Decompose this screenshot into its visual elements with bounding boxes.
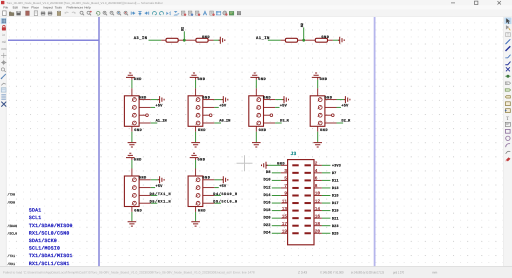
pin 1 of J9 xyxy=(196,178,200,182)
svg-text:GND: GND xyxy=(320,77,328,82)
wire pin4 J6 xyxy=(275,122,282,124)
wire pin 6 J3 xyxy=(322,179,331,181)
pin 14 of J3 xyxy=(305,210,311,212)
svg-text:mil: mil xyxy=(2,40,6,44)
svg-text:SDA1: SDA1 xyxy=(29,208,42,214)
svg-text:GND: GND xyxy=(134,208,142,213)
ground xyxy=(219,37,225,44)
wire R to GND xyxy=(333,39,339,41)
svg-text:+5V: +5V xyxy=(219,104,227,109)
svg-text:12: 12 xyxy=(315,199,321,204)
svg-text:10: 10 xyxy=(315,192,321,197)
pin 3 of J3 xyxy=(292,172,298,174)
wire pin3 J9 xyxy=(214,194,221,196)
wire pin1 J7 to GND xyxy=(337,99,344,101)
wire pin4 J5 xyxy=(214,122,221,124)
pin 2 of J3 xyxy=(305,164,311,166)
ground (pin1 J8) xyxy=(158,176,164,183)
ground (pin1 J9) xyxy=(222,176,228,183)
connector J6 xyxy=(249,96,264,127)
pin 6 of J3 xyxy=(305,179,311,181)
ground (top of J9) xyxy=(195,158,197,160)
svg-text:+5V: +5V xyxy=(280,104,288,109)
pin 8 of J3 xyxy=(305,187,311,189)
wire pin4 J7 xyxy=(337,122,344,124)
pin 4 of J9 xyxy=(196,201,200,205)
svg-text:D24: D24 xyxy=(263,231,271,236)
wire pin2 J9 to +5V xyxy=(214,187,218,189)
pin wire R to junction xyxy=(178,39,196,41)
wire pin 14 J3 xyxy=(322,210,331,212)
svg-text:D2_R: D2_R xyxy=(341,119,351,124)
pin 19 of J3 xyxy=(292,232,298,234)
svg-text:A: A xyxy=(506,82,508,85)
pin 1 of J6 xyxy=(257,98,261,102)
pin 3 of J6 xyxy=(257,113,261,117)
wire pin 5 J3 xyxy=(272,179,281,181)
svg-text:D10: D10 xyxy=(263,178,271,183)
menu bar xyxy=(0,6,512,10)
svg-text:Toro_06-08V_Node_Board_V1.0_20: Toro_06-08V_Node_Board_V1.0_20230308 [To… xyxy=(7,1,163,5)
wire pin2 J5 to +5V xyxy=(214,106,218,108)
svg-text:D16: D16 xyxy=(263,200,271,205)
pin 9 of J3 xyxy=(292,195,298,197)
wire pin 2 J3 xyxy=(322,164,331,166)
svg-text:D18: D18 xyxy=(263,208,271,213)
wire pin1 J5 to GND xyxy=(214,99,221,101)
pin 4 of J4 xyxy=(133,121,137,125)
svg-text:GND: GND xyxy=(198,208,206,213)
svg-text:D25: D25 xyxy=(332,231,339,236)
svg-text:GND: GND xyxy=(321,35,329,40)
page limit right vertical line xyxy=(374,17,376,267)
svg-text:D13: D13 xyxy=(332,186,339,191)
svg-text:GND: GND xyxy=(198,128,206,133)
ground (pin1 J7) xyxy=(344,96,350,103)
svg-text:A0_IN: A0_IN xyxy=(219,119,230,124)
svg-text:D22: D22 xyxy=(263,223,271,228)
svg-text:D15: D15 xyxy=(332,194,339,199)
ground (top of J5) xyxy=(195,77,197,79)
ground (bottom of J9) xyxy=(195,207,197,212)
pin 18 of J3 xyxy=(305,225,311,227)
svg-text:19: 19 xyxy=(282,229,288,234)
resistor xyxy=(315,38,327,42)
right toolbar xyxy=(503,17,512,267)
svg-text:/RX1: /RX1 xyxy=(7,262,15,266)
pin of resistor xyxy=(328,39,333,41)
svg-text:GND: GND xyxy=(134,157,142,162)
svg-text:D8: D8 xyxy=(266,170,271,175)
svg-text:D5/SCL0_H: D5/SCL0_H xyxy=(213,200,237,205)
svg-text:GND: GND xyxy=(263,95,271,100)
pin 4 of J7 xyxy=(318,121,322,125)
ground (pin1 J4) xyxy=(158,96,164,103)
wire pin2 J7 to +5V xyxy=(337,106,341,108)
svg-text:mm: mm xyxy=(1,47,7,51)
wire pin 4 J3 xyxy=(322,172,331,174)
wire pin1 J8 to GND xyxy=(151,179,158,181)
svg-text:GND: GND xyxy=(258,77,266,82)
wire A3_IN to R xyxy=(149,39,162,41)
connector J5 xyxy=(188,96,203,127)
svg-text:J3: J3 xyxy=(291,151,297,157)
status bar xyxy=(0,267,512,278)
svg-text:A3_IN: A3_IN xyxy=(134,36,148,41)
pin 5 of J3 xyxy=(292,179,298,181)
svg-text:Failed to load ‘C:\Users\tosho: Failed to load ‘C:\Users\tosho\AppData\L… xyxy=(3,270,255,274)
pin 4 of J8 xyxy=(133,201,137,205)
wire A1_IN to R xyxy=(268,39,281,41)
wire pin 7 J3 xyxy=(272,187,281,189)
wire pin 15 J3 xyxy=(272,217,281,219)
wire pin 16 J3 xyxy=(322,217,331,219)
connector J4 xyxy=(124,96,139,127)
svg-text:Place: Place xyxy=(31,6,39,10)
svg-text:GND: GND xyxy=(277,162,285,167)
pin 3 of J8 xyxy=(133,194,137,198)
pin 1 of J5 xyxy=(196,98,200,102)
pin 10 of J3 xyxy=(305,195,311,197)
svg-text:Help: Help xyxy=(84,6,91,10)
ground (bottom of J8) xyxy=(131,207,133,212)
svg-text:GND: GND xyxy=(325,95,333,100)
svg-text:2: 2 xyxy=(315,162,318,167)
wire pin2 J8 to +5V xyxy=(151,187,155,189)
svg-text:GND: GND xyxy=(198,77,206,82)
junction xyxy=(302,39,305,42)
svg-text:4: 4 xyxy=(315,169,318,174)
svg-text:D4/SDA0_H: D4/SDA0_H xyxy=(213,192,237,197)
pin 4 of J3 xyxy=(305,172,311,174)
svg-text:GND: GND xyxy=(198,157,206,162)
svg-text:Tools: Tools xyxy=(55,6,63,10)
pin 3 of J9 xyxy=(196,194,200,198)
svg-text:D23: D23 xyxy=(332,224,339,229)
pin 1 of J8 xyxy=(133,178,137,182)
ground (pin1 J5) xyxy=(222,96,228,103)
title bar xyxy=(0,0,512,6)
svg-text:RX1/SCL0/CSN0: RX1/SCL0/CSN0 xyxy=(29,230,70,236)
pin of resistor xyxy=(208,39,213,41)
svg-text:D17: D17 xyxy=(332,201,339,206)
wire pin 20 J3 xyxy=(322,232,331,234)
svg-text:20: 20 xyxy=(315,229,321,234)
wire pin2 J4 to +5V xyxy=(151,106,155,108)
svg-text:GND: GND xyxy=(134,77,142,82)
pin 4 of J6 xyxy=(257,121,261,125)
svg-text:D20: D20 xyxy=(263,215,271,220)
svg-text:5: 5 xyxy=(284,177,287,182)
connector J8 xyxy=(124,176,139,207)
pin 1 of J4 xyxy=(133,98,137,102)
ground (pin1 J6) xyxy=(282,96,288,103)
svg-text:D9/RX1_H: D9/RX1_H xyxy=(150,200,172,205)
ground (top of J8) xyxy=(131,158,133,160)
pin 16 of J3 xyxy=(305,217,311,219)
svg-text:Inspect: Inspect xyxy=(43,6,53,10)
wire pin2 J6 to +5V xyxy=(275,106,279,108)
svg-text:GND: GND xyxy=(202,95,210,100)
svg-text:Edit: Edit xyxy=(13,6,18,10)
ground (bottom of J5) xyxy=(195,126,197,131)
svg-text:D19: D19 xyxy=(332,209,339,214)
svg-text:dx 145.000 dy 91.000 dist 171.: dx 145.000 dy 91.000 dist 171.25 xyxy=(351,270,384,274)
top toolbar xyxy=(0,10,512,17)
wire pin4 J4 xyxy=(151,122,158,124)
svg-text:GND: GND xyxy=(259,128,267,133)
wire pin1 J4 to GND xyxy=(151,99,158,101)
svg-text:RX1/SCL1/CSN1: RX1/SCL1/CSN1 xyxy=(29,261,70,267)
ground (top of J7) xyxy=(317,77,319,79)
pin 3 of J4 xyxy=(133,113,137,117)
pin 17 of J3 xyxy=(292,225,298,227)
svg-text:GND: GND xyxy=(202,35,210,40)
svg-text:17: 17 xyxy=(282,222,288,227)
pin 11 of J3 xyxy=(292,202,298,204)
svg-text:File: File xyxy=(3,6,8,10)
wire pin 8 J3 xyxy=(322,187,331,189)
wire pin3 J8 xyxy=(151,194,158,196)
svg-text:D21: D21 xyxy=(332,216,339,221)
pin 2 of J8 xyxy=(133,186,137,190)
svg-text:View: View xyxy=(22,6,29,10)
wire pin 13 J3 xyxy=(272,210,281,212)
svg-text:Z 3.43: Z 3.43 xyxy=(298,270,307,274)
svg-text:+5V: +5V xyxy=(219,184,227,189)
svg-text:GND: GND xyxy=(202,176,210,181)
resistor xyxy=(285,38,297,42)
svg-text:14: 14 xyxy=(315,207,321,212)
ground (J3 pin1) xyxy=(262,162,268,169)
svg-text:D14: D14 xyxy=(263,193,271,198)
svg-text:3: 3 xyxy=(284,169,287,174)
svg-text:D7: D7 xyxy=(332,171,337,176)
svg-text:8: 8 xyxy=(315,184,318,189)
wire pin4 J8 xyxy=(151,202,158,204)
pin 3 of J5 xyxy=(196,113,200,117)
pin 3 of J7 xyxy=(318,113,322,117)
svg-text:/SCL0: /SCL0 xyxy=(7,232,17,236)
wire pin 10 J3 xyxy=(322,195,331,197)
pin 15 of J3 xyxy=(292,217,298,219)
svg-text:mm: mm xyxy=(432,270,438,274)
svg-text:/TX0: /TX0 xyxy=(7,192,15,196)
ground (bottom of J6) xyxy=(255,126,257,131)
svg-text:GND: GND xyxy=(320,128,328,133)
svg-text:15: 15 xyxy=(282,214,288,219)
wire pin 11 J3 xyxy=(272,202,281,204)
wire junction to S2 xyxy=(303,27,305,40)
svg-text:GND: GND xyxy=(139,95,147,100)
left toolbar xyxy=(0,17,6,267)
window buttons xyxy=(451,1,501,4)
wire pin1 J6 to GND xyxy=(275,99,282,101)
svg-text:+5V: +5V xyxy=(155,184,163,189)
svg-text:9: 9 xyxy=(284,192,287,197)
resistor xyxy=(166,38,178,42)
svg-text:SCL1: SCL1 xyxy=(29,215,42,221)
svg-text:+5V: +5V xyxy=(341,104,349,109)
pin 1 of J7 xyxy=(318,98,322,102)
pin wire R to junction xyxy=(298,39,316,41)
pin 2 of J5 xyxy=(196,106,200,110)
svg-text:18: 18 xyxy=(315,222,321,227)
svg-text:/TX1: /TX1 xyxy=(7,254,15,258)
svg-text:D12: D12 xyxy=(263,185,271,190)
svg-text:7: 7 xyxy=(284,184,287,189)
pin 2 of J6 xyxy=(257,106,261,110)
page limit vertical line xyxy=(98,17,100,267)
svg-text:6: 6 xyxy=(315,177,318,182)
wire pin 9 J3 xyxy=(272,195,281,197)
svg-text:A1_IN: A1_IN xyxy=(156,119,167,124)
wire pin4 J9 xyxy=(214,202,221,204)
ground (top of J4) xyxy=(131,77,133,79)
pin 2 of J9 xyxy=(196,186,200,190)
svg-text:11: 11 xyxy=(282,199,288,204)
pin 1 of J3 xyxy=(292,164,298,166)
page limit horizontal line xyxy=(8,39,99,41)
svg-text:/RX0: /RX0 xyxy=(7,201,15,205)
svg-text:D8/TX1_H: D8/TX1_H xyxy=(150,192,172,197)
svg-text:/SDA0: /SDA0 xyxy=(7,224,17,228)
connector J7 xyxy=(310,96,325,127)
svg-text:+3V3: +3V3 xyxy=(332,163,341,168)
wire pin 1 J3 to GND xyxy=(267,164,281,166)
wire junction to S2 xyxy=(183,31,185,40)
wire pin 17 J3 xyxy=(272,225,281,227)
ground xyxy=(338,37,344,44)
svg-text:13: 13 xyxy=(282,207,288,212)
wire pin 18 J3 xyxy=(322,225,331,227)
svg-text:+5V: +5V xyxy=(155,104,163,109)
svg-text:GND: GND xyxy=(134,128,142,133)
svg-text:A1_IN: A1_IN xyxy=(256,36,270,41)
junction xyxy=(183,39,186,42)
ground (bottom of J7) xyxy=(317,126,319,131)
ground (top of J6) xyxy=(255,77,257,79)
wire pin 12 J3 xyxy=(322,202,331,204)
connector J9 xyxy=(188,176,203,207)
pin 2 of J7 xyxy=(318,106,322,110)
svg-text:X 145.000 Y 91.000: X 145.000 Y 91.000 xyxy=(320,270,344,274)
ground (bottom of J4) xyxy=(131,126,133,131)
svg-text:S2: S2 xyxy=(300,23,305,27)
wire R to GND xyxy=(214,39,220,41)
resistor xyxy=(196,38,208,42)
svg-text:SCL1/MOSI0: SCL1/MOSI0 xyxy=(29,246,60,252)
pin of resistor xyxy=(161,39,166,41)
svg-text:SDA1/SCK0: SDA1/SCK0 xyxy=(29,238,57,244)
pin 2 of J4 xyxy=(133,106,137,110)
pin 12 of J3 xyxy=(305,202,311,204)
svg-text:TX1/SDA0/MISO0: TX1/SDA0/MISO0 xyxy=(29,223,73,229)
wire pin 19 J3 xyxy=(272,232,281,234)
pin 13 of J3 xyxy=(292,210,298,212)
svg-text:S2: S2 xyxy=(181,27,186,31)
svg-text:TX1/SDA1/MISO1: TX1/SDA1/MISO1 xyxy=(29,253,73,259)
svg-text:16: 16 xyxy=(315,214,321,219)
svg-text:grid 1.270: grid 1.270 xyxy=(393,270,404,274)
svg-text:Preferences: Preferences xyxy=(67,6,84,10)
svg-text:GND: GND xyxy=(139,176,147,181)
pin of resistor xyxy=(281,39,286,41)
svg-text:D11: D11 xyxy=(332,179,339,184)
svg-text:in: in xyxy=(3,33,6,37)
wire pin1 J9 to GND xyxy=(214,179,221,181)
pin 20 of J3 xyxy=(305,232,311,234)
wire pin 3 J3 xyxy=(272,172,281,174)
origin cross marker xyxy=(237,155,253,171)
pin 4 of J5 xyxy=(196,121,200,125)
svg-text:D3_R: D3_R xyxy=(280,119,290,124)
pin 7 of J3 xyxy=(292,187,298,189)
